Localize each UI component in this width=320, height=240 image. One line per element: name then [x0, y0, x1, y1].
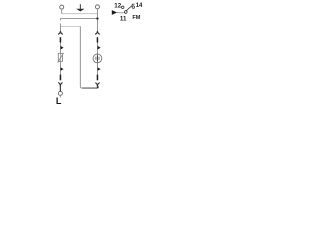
svg-text:12: 12	[114, 3, 121, 10]
svg-text:14: 14	[136, 3, 143, 9]
svg-text:L: L	[56, 96, 62, 106]
svg-text:11: 11	[120, 15, 127, 22]
svg-text:FM: FM	[132, 15, 140, 21]
